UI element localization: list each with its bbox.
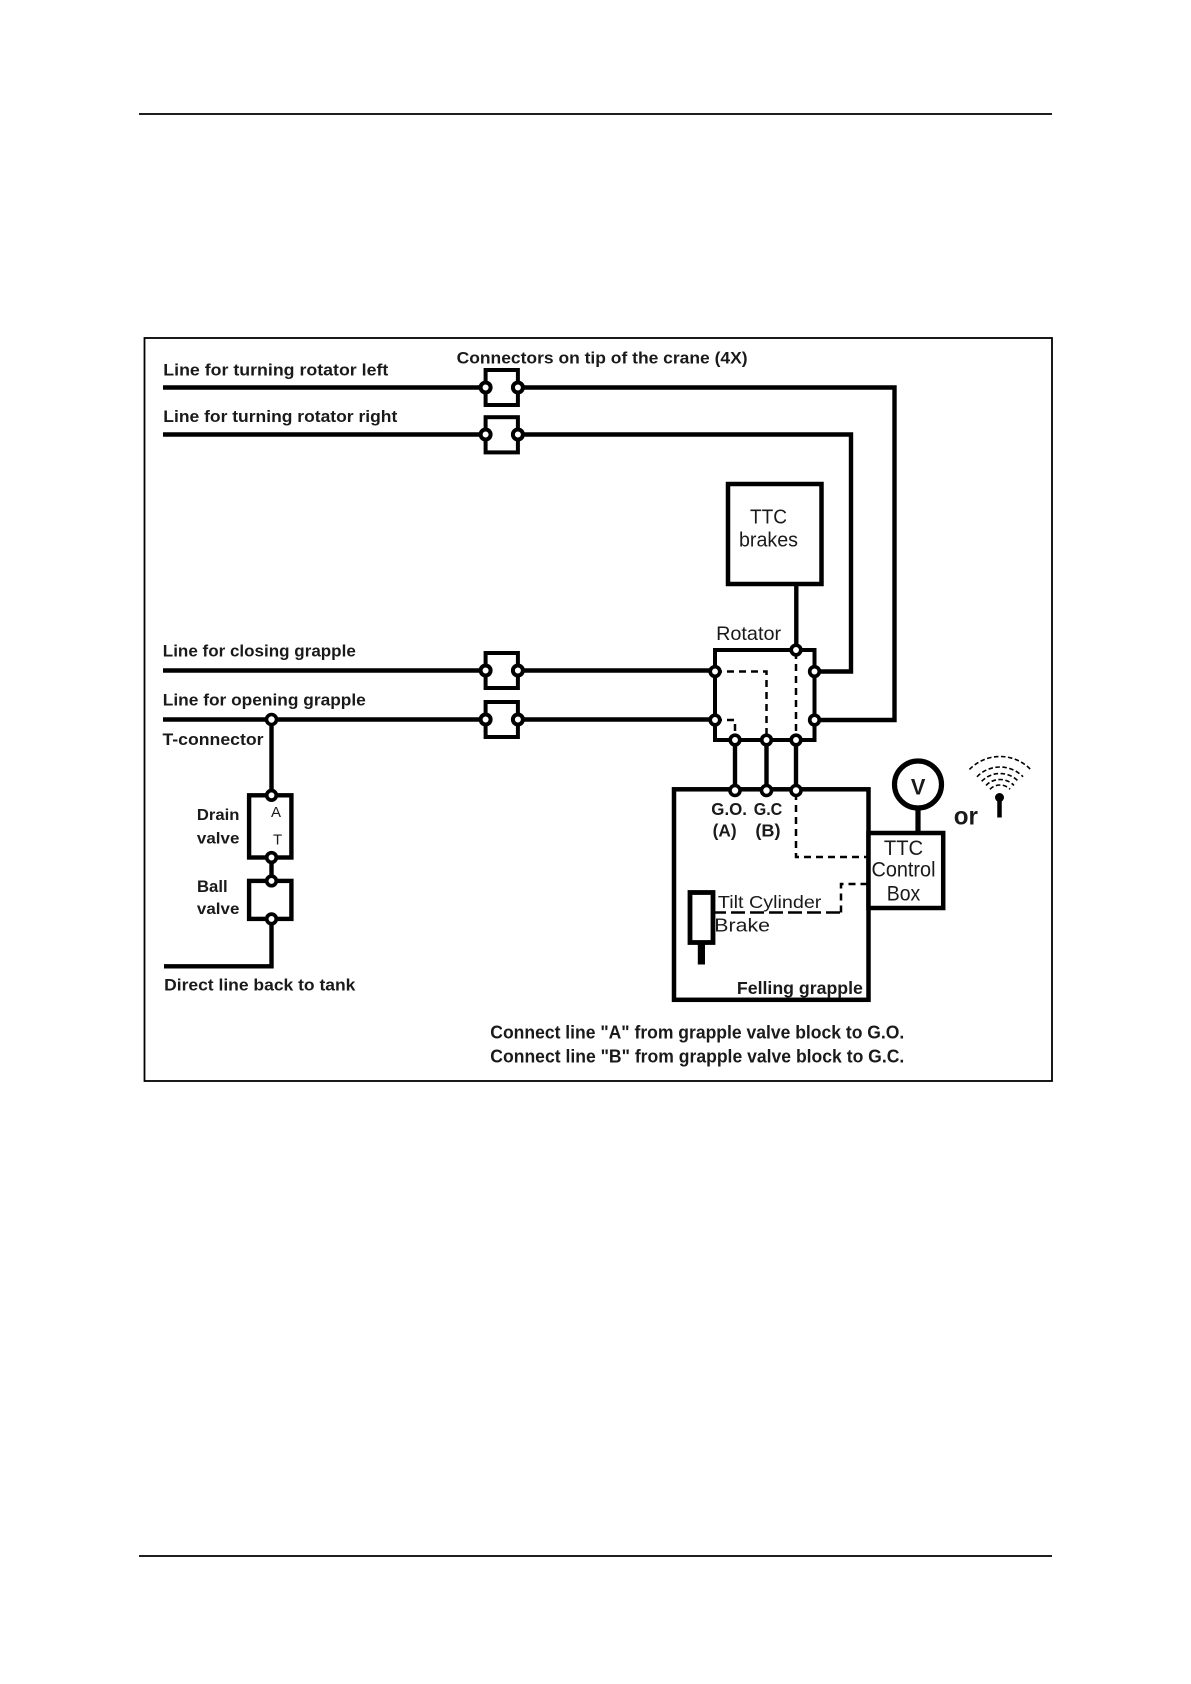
dashed brake line inside felling grapple to TTC control box <box>796 793 867 857</box>
node: felling grapple G.O. port <box>730 786 740 796</box>
svg-text:(A): (A) <box>713 821 737 841</box>
ball valve box <box>249 881 291 919</box>
svg-text:TTC: TTC <box>750 506 787 528</box>
svg-text:G.O.: G.O. <box>711 799 747 819</box>
dashed line tilt cylinder to TTC control box <box>841 884 867 913</box>
svg-text:T-connector: T-connector <box>163 731 265 749</box>
wire: line for turning rotator right (left segment) <box>163 432 486 436</box>
node: drain valve port A <box>267 791 277 801</box>
dashed pilot line inside rotator (opening to G.O.) <box>715 720 735 738</box>
wire: T-connector drop to drain valve <box>269 720 273 794</box>
svg-text:valve: valve <box>197 901 240 918</box>
wire: line for turning rotator left (left segment) <box>163 385 486 389</box>
wire: line for closing grapple (right segment to rotator left port) <box>518 668 712 672</box>
node: felling grapple brake port <box>791 786 801 796</box>
svg-text:T: T <box>273 832 282 849</box>
node: rotator bottom port 3 <box>791 735 801 745</box>
svg-text:valve: valve <box>197 830 240 847</box>
node: connector 4 right pin <box>513 715 523 725</box>
connector 1 box (turning rotator left) <box>486 370 518 405</box>
svg-text:Ball: Ball <box>197 878 228 896</box>
node: rotator bottom port 2 <box>762 735 772 745</box>
svg-text:Drain: Drain <box>197 807 240 824</box>
wire: drain valve to ball valve link <box>269 858 273 880</box>
wire: TTC brakes drop to rotator <box>794 583 798 648</box>
connector 2 box (turning rotator right) <box>486 417 518 452</box>
wire: line for opening grapple (left segment) <box>163 717 486 721</box>
svg-text:V: V <box>911 774 926 799</box>
wire: rotator to felling grapple brake drop <box>794 740 798 790</box>
svg-text:Line for turning rotator left: Line for turning rotator left <box>163 361 389 380</box>
svg-text:Control: Control <box>872 858 936 881</box>
diagram frame <box>145 338 1053 1081</box>
svg-text:Box: Box <box>887 882 921 905</box>
node: connector 1 right pin <box>513 383 523 393</box>
TTC control box <box>869 833 944 908</box>
wire: line for closing grapple (left segment) <box>163 668 486 672</box>
felling grapple box <box>674 789 869 1000</box>
tilt cylinder brake label dashed underline <box>712 911 841 914</box>
svg-text:Felling grapple: Felling grapple <box>737 978 863 998</box>
svg-text:brakes: brakes <box>739 530 798 552</box>
page top rule <box>139 113 1052 115</box>
node: rotator right port B <box>810 715 820 725</box>
node: connector 2 right pin <box>513 430 523 440</box>
TTC brakes box <box>728 484 822 584</box>
V meter circle <box>895 761 942 808</box>
antenna wave arc 1 <box>990 785 1010 789</box>
connector 4 box (opening grapple) <box>486 702 518 737</box>
node: connector 1 left pin <box>481 383 491 393</box>
svg-text:Connectors on tip of the crane: Connectors on tip of the crane (4X) <box>457 350 748 368</box>
wire: ball valve down and elbow to tank line <box>164 921 272 966</box>
node: rotator right port A <box>810 667 820 677</box>
node: connector 3 right pin <box>513 666 523 676</box>
node: connector 2 left pin <box>481 430 491 440</box>
svg-text:Brake: Brake <box>714 915 770 935</box>
antenna wave arc 5 <box>969 756 1030 769</box>
svg-text:Rotator: Rotator <box>716 623 781 645</box>
node: rotator left port (closing) <box>710 667 720 677</box>
svg-text:Line for opening grapple: Line for opening grapple <box>163 691 366 710</box>
wire: line for opening grapple (right segment to rotator left port) <box>518 717 712 721</box>
dashed pilot line inside rotator (brake pass-through) <box>795 652 798 738</box>
antenna dot <box>995 793 1004 802</box>
antenna stem <box>997 798 1002 818</box>
node: T-connector junction <box>267 715 277 725</box>
node: rotator top port (brake) <box>791 645 801 655</box>
node: connector 4 left pin <box>481 715 491 725</box>
drain valve box <box>249 795 291 857</box>
node: drain valve port T <box>267 853 277 863</box>
svg-text:Line for closing grapple: Line for closing grapple <box>163 642 356 661</box>
rotator box <box>715 650 815 740</box>
svg-text:G.C: G.C <box>754 799 783 819</box>
node: rotator bottom port 1 <box>730 735 740 745</box>
node: rotator left port (opening) <box>710 715 720 725</box>
svg-text:(B): (B) <box>755 821 780 841</box>
antenna wave arc 4 <box>977 767 1023 777</box>
svg-text:Direct line back to tank: Direct line back to tank <box>164 977 356 995</box>
svg-text:Connect line "B" from grapple: Connect line "B" from grapple valve bloc… <box>490 1047 904 1067</box>
svg-text:or: or <box>954 802 978 830</box>
wire: V meter stem to TTC control box <box>915 800 920 833</box>
connector 3 box (closing grapple) <box>486 653 518 688</box>
dashed pilot line inside rotator (closing to G.C.) <box>715 672 767 739</box>
tilt cylinder body <box>690 893 713 943</box>
tilt cylinder rod <box>698 943 705 965</box>
wire: rotator to felling grapple G.C. drop <box>764 740 768 790</box>
svg-text:Tilt Cylinder: Tilt Cylinder <box>718 892 822 912</box>
svg-text:Connect line "A" from grapple: Connect line "A" from grapple valve bloc… <box>490 1022 904 1042</box>
wire: line for turning rotator right (right segment down to rotator right port A) <box>518 435 851 672</box>
page bottom rule <box>139 1555 1052 1557</box>
node: felling grapple G.C. port <box>762 786 772 796</box>
svg-text:Line for turning rotator right: Line for turning rotator right <box>163 407 397 426</box>
antenna wave arc 3 <box>982 774 1019 782</box>
node: ball valve top port <box>267 876 277 886</box>
wire: line for turning rotator left (right segment down to rotator right port B) <box>518 388 895 721</box>
svg-text:TTC: TTC <box>884 837 923 860</box>
antenna wave arc 2 <box>986 780 1014 786</box>
svg-text:A: A <box>271 804 281 821</box>
node: ball valve bottom port <box>267 914 277 924</box>
wire: rotator to felling grapple G.O. drop <box>733 740 737 790</box>
node: connector 3 left pin <box>481 666 491 676</box>
